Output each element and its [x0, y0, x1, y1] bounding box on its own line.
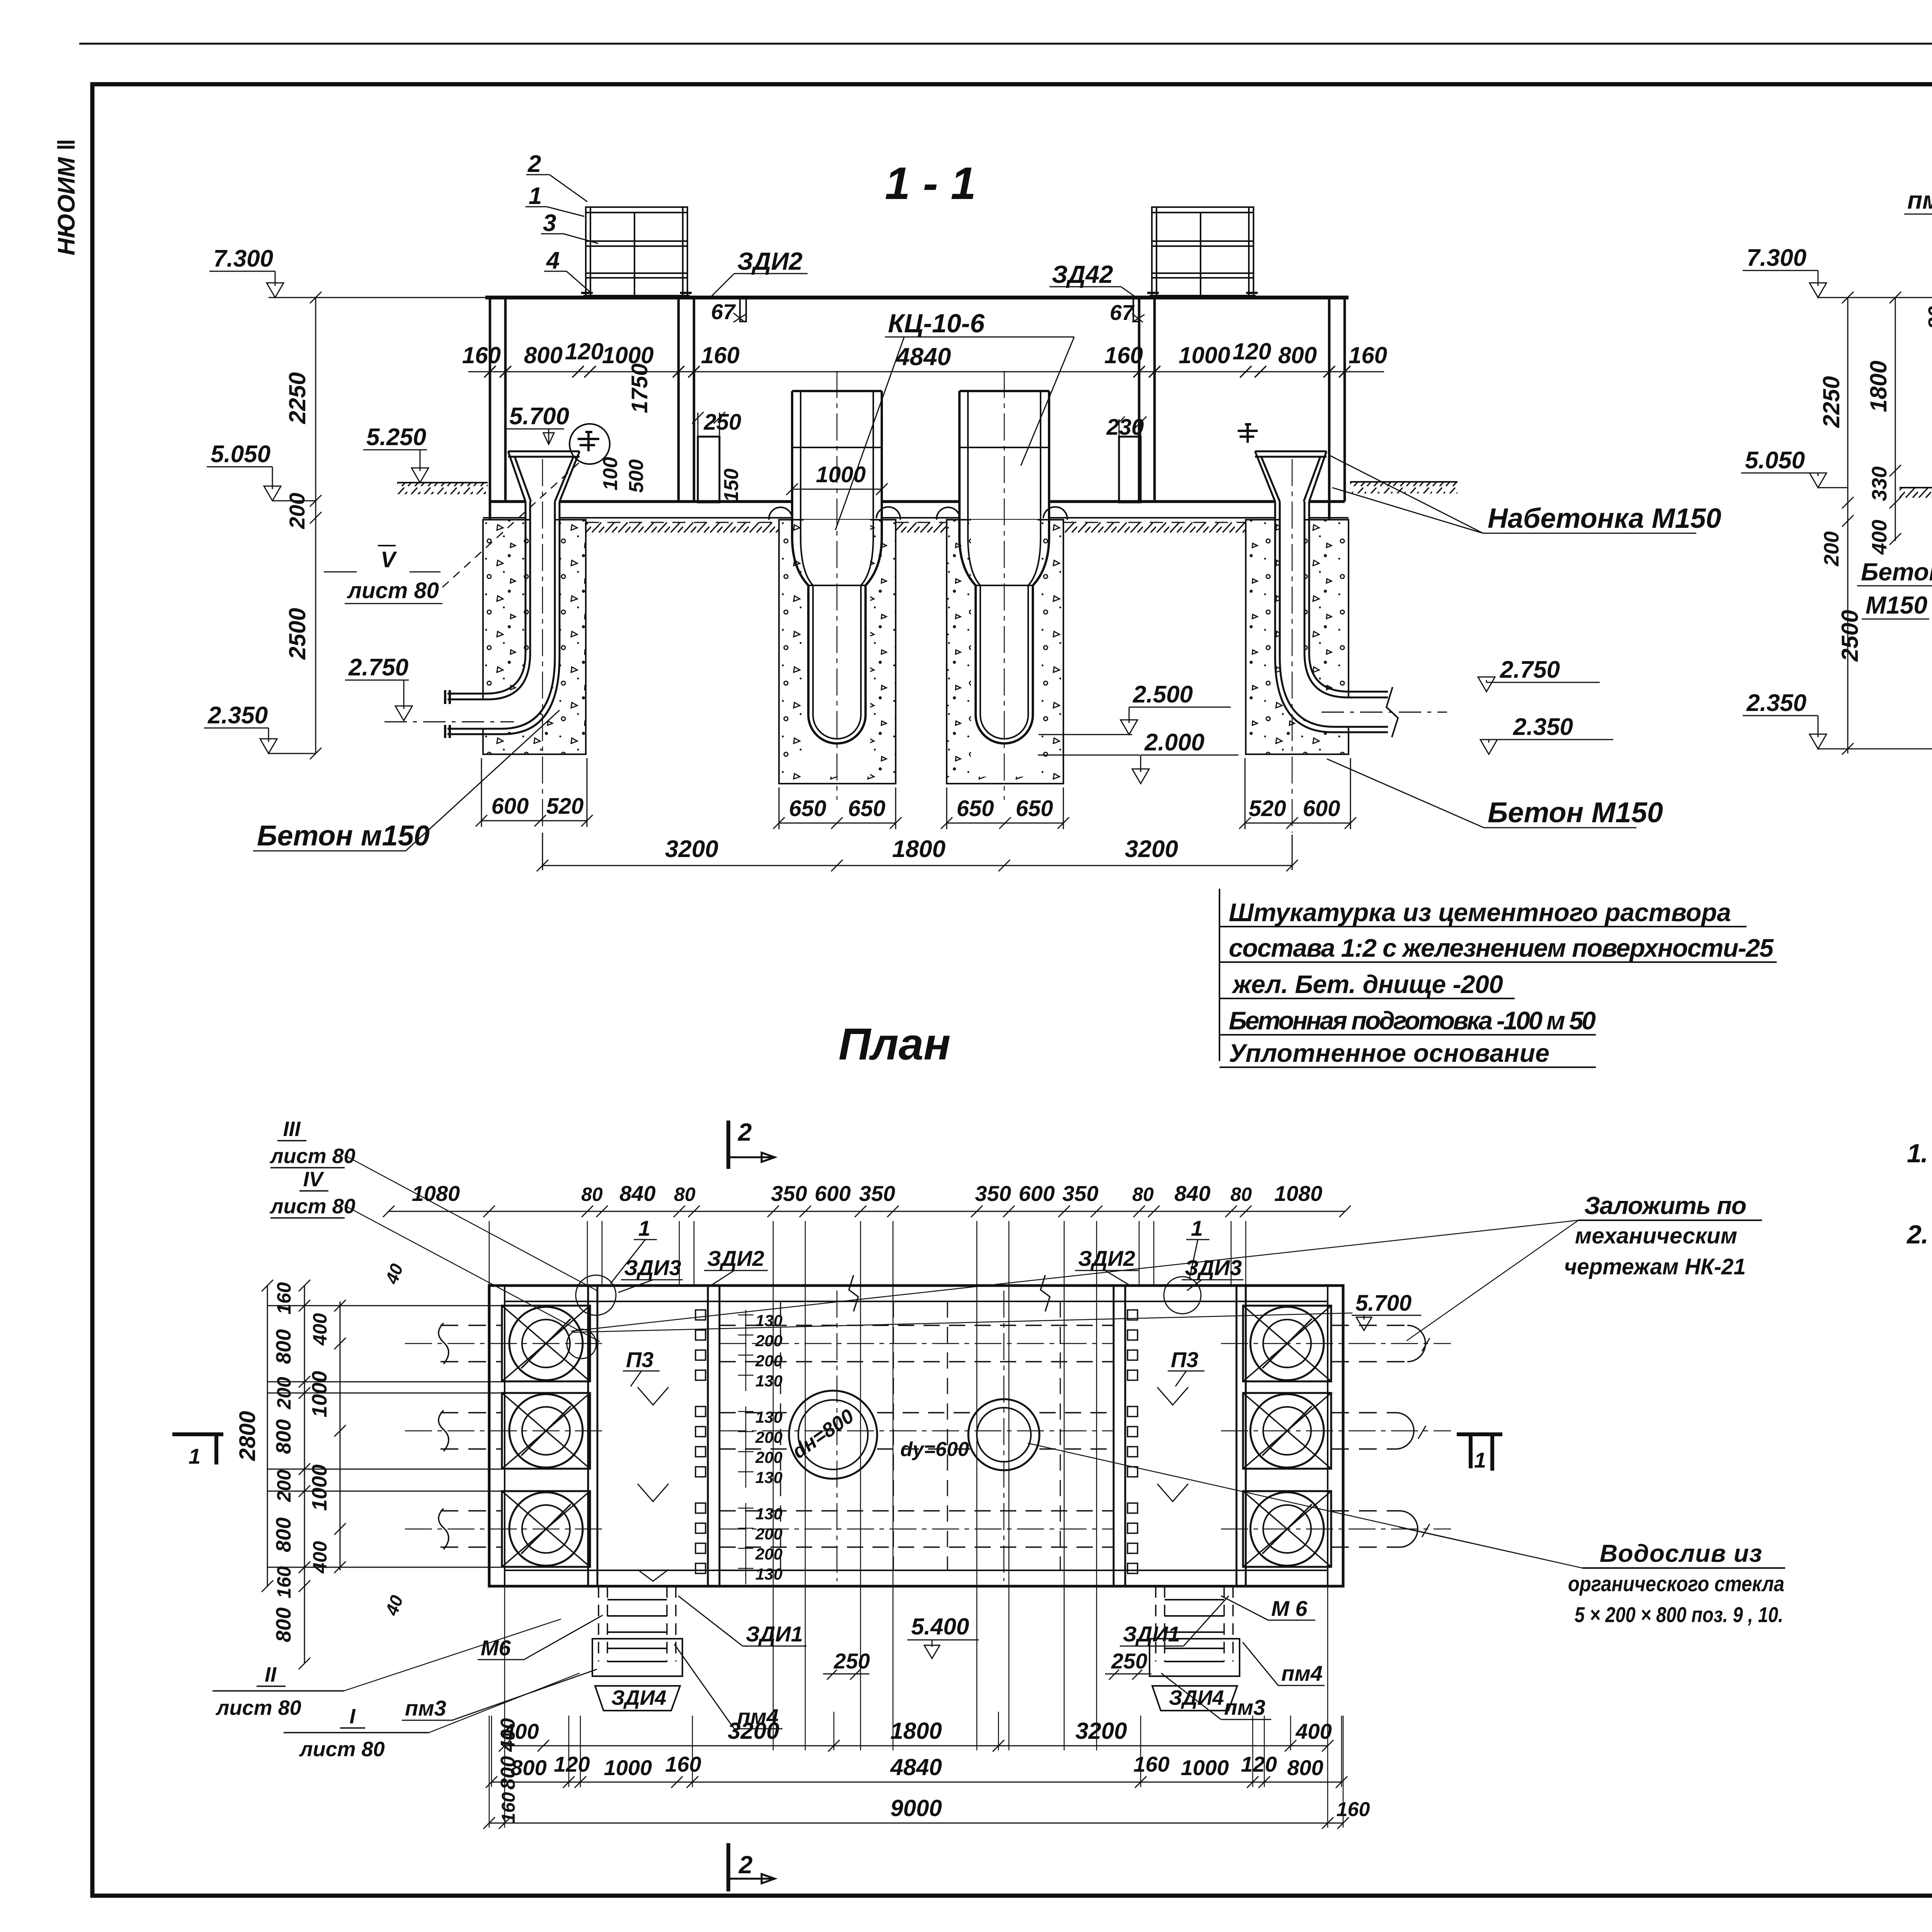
svg-text:160: 160 — [701, 342, 740, 368]
stub wall 67 left — [740, 298, 746, 321]
svg-text:840: 840 — [619, 1181, 655, 1206]
svg-text:650: 650 — [1016, 796, 1053, 821]
vertical dims left of 2-2 — [1818, 292, 1932, 755]
svg-text:800: 800 — [272, 1419, 295, 1454]
pipe2 concrete foundation — [947, 520, 1063, 784]
svg-text:IV: IV — [303, 1168, 324, 1191]
pipe1 KC-10-6 — [792, 391, 882, 743]
central dashed pipe runs — [719, 1325, 1114, 1547]
level mark 2.000 mid — [1038, 729, 1238, 784]
svg-text:5.700: 5.700 — [1355, 1291, 1412, 1316]
right railing — [1147, 206, 1258, 298]
svg-text:Набетонка М150: Набетонка М150 — [1488, 503, 1721, 534]
level mark 7.300 — [209, 245, 284, 298]
svg-text:520: 520 — [1249, 796, 1286, 821]
centerline left funnel pipe — [542, 459, 543, 827]
section marks 2-2 top bottom — [728, 1118, 775, 1891]
svg-text:Бетон М150: Бетон М150 — [1488, 796, 1663, 828]
svg-text:400: 400 — [497, 1718, 519, 1752]
right inner wall — [1139, 298, 1155, 502]
svg-text:ЗДИ4: ЗДИ4 — [1169, 1686, 1224, 1709]
svg-text:2.750: 2.750 — [348, 654, 408, 681]
svg-text:М6: М6 — [481, 1636, 511, 1660]
level mark 2.750 right — [1321, 656, 1600, 712]
svg-text:Штукатурка из цементного рас: Штукатурка из цементного раствора — [1229, 898, 1731, 927]
svg-text:2: 2 — [527, 151, 541, 177]
note zalozhit — [571, 1192, 1762, 1341]
svg-text:120: 120 — [1241, 1752, 1277, 1776]
right inlet block squares with circles — [1243, 1306, 1331, 1567]
label ZD42 right — [1049, 260, 1145, 325]
svg-text:2.000: 2.000 — [1144, 729, 1204, 756]
svg-text:1000: 1000 — [816, 462, 866, 487]
svg-text:лист 80: лист 80 — [269, 1195, 355, 1218]
right funnel water inlet — [1255, 451, 1327, 502]
svg-text:1000: 1000 — [1181, 1755, 1229, 1780]
svg-text:67: 67 — [1110, 300, 1135, 325]
left inlet block squares with circles — [267, 1306, 590, 1567]
svg-text:5.700: 5.700 — [509, 403, 569, 430]
svg-text:130: 130 — [755, 1372, 782, 1390]
svg-text:III: III — [283, 1117, 301, 1141]
svg-text:I: I — [349, 1705, 355, 1728]
svg-text:200: 200 — [755, 1525, 782, 1543]
svg-text:1: 1 — [1474, 1448, 1486, 1472]
concrete collar bumps at floor — [769, 507, 1067, 520]
svg-text:1800: 1800 — [890, 1718, 942, 1744]
pos labels 2 1 3 4 left railing — [526, 151, 598, 293]
svg-text:600: 600 — [815, 1181, 850, 1206]
svg-text:160: 160 — [462, 342, 501, 368]
svg-text:400: 400 — [309, 1313, 331, 1346]
svg-text:II: II — [265, 1663, 277, 1686]
svg-text:лист 80: лист 80 — [299, 1738, 385, 1761]
note vodosliv — [1028, 1443, 1785, 1627]
svg-text:2250: 2250 — [284, 372, 310, 424]
svg-text:200: 200 — [273, 1469, 295, 1502]
svg-text:состава 1:2 с железнением п: состава 1:2 с железнением поверхности-25 — [1229, 934, 1774, 962]
svg-text:3200: 3200 — [665, 836, 718, 862]
svg-text:800: 800 — [1278, 342, 1317, 368]
label ZDI2 left — [711, 247, 808, 324]
level mark 2.500 mid — [1039, 681, 1231, 735]
channel flow chevrons — [638, 1387, 1188, 1581]
left vertical dim line — [284, 292, 321, 759]
bottom dims 520 600 right — [1239, 758, 1356, 829]
svg-text:Бетон м150: Бетон м150 — [257, 820, 430, 852]
ground line right of structure — [1350, 482, 1458, 493]
svg-text:350: 350 — [859, 1181, 895, 1206]
interior clear of pipe2 — [971, 520, 1037, 777]
svg-text:2.350: 2.350 — [1746, 690, 1806, 716]
svg-text:130: 130 — [755, 1565, 782, 1583]
svg-text:350: 350 — [1062, 1181, 1098, 1206]
svg-text:5 × 200 × 800 поз. 9 , 10.: 5 × 200 × 800 поз. 9 , 10. — [1575, 1602, 1783, 1627]
svg-text:пм3: пм3 — [405, 1696, 446, 1720]
section marks 1-1 left right — [172, 1434, 1502, 1472]
label beton m150 left — [253, 710, 560, 852]
svg-text:dу=600: dу=600 — [900, 1438, 969, 1461]
top-left detail circles and labels — [567, 1216, 1243, 1359]
labels around wells — [402, 1596, 1325, 1729]
svg-text:130: 130 — [755, 1408, 782, 1426]
stub wall 67 right — [1133, 298, 1139, 321]
svg-text:200: 200 — [755, 1332, 782, 1350]
dim 230 right pier — [1106, 415, 1146, 440]
svg-text:Бетонная подготовка -100 м 50: Бетонная подготовка -100 м 50 — [1229, 1006, 1596, 1035]
svg-text:200: 200 — [273, 1377, 295, 1410]
pier 250 left — [698, 437, 719, 502]
svg-text:9000: 9000 — [890, 1795, 942, 1821]
inlet pipe stubs left dashed — [405, 1323, 603, 1549]
svg-text:80: 80 — [674, 1184, 696, 1205]
svg-text:80: 80 — [1132, 1184, 1154, 1205]
level mark 5.250 — [363, 424, 429, 483]
svg-text:НЮОИМ ǁ: НЮОИМ ǁ — [53, 139, 80, 255]
svg-text:1: 1 — [638, 1216, 650, 1240]
svg-text:160: 160 — [1133, 1752, 1169, 1776]
floor slab lines — [483, 502, 1349, 522]
centerline pipe1 — [837, 371, 838, 800]
pipe2 KC-10-6 — [959, 391, 1049, 743]
reference III list 80 — [269, 1117, 597, 1291]
label Beton M150 — [1857, 503, 1932, 619]
left outer wall — [490, 298, 505, 520]
svg-text:ЗДИ1: ЗДИ1 — [746, 1622, 803, 1646]
svg-text:Заложить по: Заложить по — [1584, 1192, 1747, 1219]
right gate fitting — [1238, 424, 1258, 443]
dim 250 left pier — [599, 410, 743, 502]
svg-text:2.750: 2.750 — [1500, 656, 1560, 683]
level 7.300 — [1743, 245, 1932, 298]
svg-text:2.350: 2.350 — [1513, 714, 1573, 740]
left concrete foundation block — [483, 520, 586, 754]
svg-text:600: 600 — [1303, 796, 1340, 821]
left dim columns of plan — [235, 1261, 407, 1669]
svg-text:М150: М150 — [1866, 591, 1927, 619]
svg-text:400: 400 — [1295, 1719, 1332, 1743]
level mark 2.350 left — [204, 702, 316, 753]
left channel walls — [588, 1286, 719, 1586]
svg-text:1: 1 — [529, 183, 542, 209]
svg-text:200: 200 — [285, 493, 309, 529]
svg-text:пм3: пм3 — [1224, 1695, 1265, 1719]
svg-text:1800: 1800 — [1866, 361, 1891, 412]
svg-text:1800: 1800 — [892, 836, 946, 862]
bottom dims 3200 1800 3200 — [537, 833, 1298, 871]
svg-text:350: 350 — [975, 1181, 1011, 1206]
level mark 2.350 right — [1480, 714, 1613, 754]
svg-text:800: 800 — [1287, 1755, 1323, 1780]
reference IV list 80 — [269, 1168, 600, 1342]
tab spacing dims — [738, 1310, 782, 1584]
svg-text:1000: 1000 — [308, 1464, 331, 1511]
svg-text:ЗДИ4: ЗДИ4 — [611, 1686, 667, 1709]
svg-text:КЦ-10-6: КЦ-10-6 — [888, 309, 985, 338]
svg-text:120: 120 — [1233, 338, 1271, 364]
svg-text:V: V — [381, 547, 397, 572]
plan outer walls — [489, 1286, 1343, 1586]
svg-text:1000: 1000 — [1179, 342, 1230, 368]
svg-text:120: 120 — [565, 338, 604, 364]
svg-text:80: 80 — [1230, 1184, 1252, 1205]
svg-text:3200: 3200 — [1075, 1718, 1127, 1744]
svg-text:1 - 1: 1 - 1 — [885, 158, 976, 209]
svg-text:2. Совместно с данным см. л: 2. Совместно с данным см. л. КЖ-80,93,94… — [1906, 1220, 1932, 1249]
svg-text:3: 3 — [543, 210, 556, 236]
opening d600 — [900, 1399, 1039, 1470]
level 5.050 — [1741, 447, 1848, 488]
svg-text:200: 200 — [755, 1545, 782, 1563]
svg-text:лист 80: лист 80 — [215, 1696, 301, 1719]
svg-text:250: 250 — [833, 1649, 870, 1673]
detail circle and gate fitting 5.700 — [506, 403, 610, 464]
left railing — [581, 206, 692, 298]
svg-text:1000: 1000 — [308, 1371, 331, 1417]
svg-text:100: 100 — [599, 457, 622, 491]
svg-text:2.500: 2.500 — [1133, 681, 1193, 708]
svg-text:5.050: 5.050 — [211, 441, 270, 468]
bottom dims 650 650 pipe2 — [941, 787, 1069, 829]
label KC-10-6 — [835, 309, 1074, 530]
svg-text:160: 160 — [665, 1752, 701, 1776]
svg-text:130: 130 — [755, 1505, 782, 1523]
break marks on top edge — [849, 1275, 1050, 1311]
svg-text:150: 150 — [720, 469, 743, 502]
plan level 5.700 — [572, 1291, 1421, 1332]
svg-text:840: 840 — [1174, 1181, 1210, 1206]
top slab — [485, 296, 1349, 299]
svg-text:М 6: М 6 — [1271, 1596, 1308, 1621]
svg-text:лист 80: лист 80 — [269, 1145, 355, 1168]
svg-text:чертежам НК-21: чертежам НК-21 — [1564, 1254, 1746, 1279]
pipe1 dim 1000 — [786, 462, 888, 495]
right outer wall — [1329, 298, 1345, 520]
svg-text:2: 2 — [738, 1118, 752, 1146]
svg-text:160: 160 — [1349, 342, 1387, 368]
svg-text:1: 1 — [189, 1444, 201, 1468]
svg-text:7.300: 7.300 — [1747, 245, 1806, 271]
svg-text:330: 330 — [1868, 466, 1891, 501]
top dim chain of plan — [383, 1181, 1351, 1750]
svg-text:520: 520 — [546, 794, 584, 819]
svg-text:4840: 4840 — [890, 1754, 942, 1780]
svg-text:ЗДИ2: ЗДИ2 — [737, 247, 803, 275]
svg-text:Водослив из: Водослив из — [1600, 1539, 1762, 1567]
P3 labels — [623, 1347, 1204, 1386]
svg-text:Уплотненное основание: Уплотненное основание — [1229, 1039, 1549, 1067]
svg-text:ЗД42: ЗД42 — [1052, 260, 1113, 288]
svg-text:5.250: 5.250 — [366, 424, 426, 451]
reference II list 80 — [213, 1619, 561, 1719]
svg-text:2500: 2500 — [1837, 610, 1863, 662]
ground hatch mid right segment — [1063, 521, 1246, 534]
ground left of 2-2 — [1900, 488, 1932, 498]
svg-text:пм4: пм4 — [1281, 1661, 1323, 1685]
svg-text:120: 120 — [554, 1752, 590, 1776]
svg-text:1080: 1080 — [1274, 1181, 1323, 1206]
svg-text:1750: 1750 — [627, 363, 652, 413]
bottom dims 650 650 pipe1 — [773, 787, 901, 829]
svg-text:200: 200 — [755, 1428, 782, 1446]
ref V list 80 — [324, 463, 579, 604]
svg-text:800: 800 — [272, 1329, 295, 1364]
left bottom wing dims — [497, 1718, 519, 1823]
right down pipe with elbow — [1275, 502, 1398, 737]
svg-text:1: 1 — [1191, 1216, 1203, 1240]
label beton m150 right — [1327, 759, 1663, 828]
svg-text:ЗДИ2: ЗДИ2 — [707, 1246, 764, 1270]
svg-text:4840: 4840 — [895, 343, 951, 371]
svg-text:П3: П3 — [1171, 1347, 1198, 1372]
centerline pipe2 — [1004, 371, 1005, 800]
level mark 2.750 left — [345, 654, 514, 722]
svg-text:2500: 2500 — [284, 608, 310, 660]
interior clear of pipe1 — [804, 520, 870, 777]
anchor tabs left wall — [696, 1310, 706, 1573]
svg-text:250: 250 — [704, 410, 742, 435]
svg-text:400: 400 — [309, 1541, 331, 1574]
svg-text:200: 200 — [1820, 531, 1843, 566]
outlet pipe stubs right dashed — [1221, 1325, 1451, 1547]
reference I list 80 — [284, 1673, 580, 1761]
svg-text:600: 600 — [492, 794, 529, 819]
svg-text:650: 650 — [848, 796, 886, 821]
svg-text:5.050: 5.050 — [1745, 447, 1805, 474]
svg-text:7.300: 7.300 — [213, 245, 273, 272]
centerline right funnel pipe — [1292, 459, 1293, 833]
svg-text:80: 80 — [1924, 306, 1932, 329]
ground hatch between pipe foundations — [896, 521, 947, 534]
svg-text:130: 130 — [755, 1468, 782, 1486]
left down pipe with elbow — [445, 502, 560, 738]
svg-text:1000: 1000 — [604, 1755, 652, 1780]
svg-text:механическим: механическим — [1575, 1223, 1737, 1248]
svg-text:1. Камера N11 для аэротенка: 1. Камера N11 для аэротенка производител… — [1907, 1139, 1932, 1168]
svg-text:160: 160 — [1104, 342, 1143, 368]
anchor tabs right wall — [1128, 1310, 1138, 1573]
svg-text:П3: П3 — [626, 1347, 653, 1372]
label pm3,4 — [1904, 186, 1932, 271]
sheet trim line top — [79, 43, 1932, 45]
svg-text:160: 160 — [1337, 1798, 1370, 1821]
svg-text:67: 67 — [711, 299, 736, 324]
svg-text:800: 800 — [524, 342, 563, 368]
svg-text:350: 350 — [771, 1181, 807, 1206]
ground hatch mid left segment — [586, 521, 779, 534]
svg-text:650: 650 — [957, 796, 994, 821]
svg-text:800: 800 — [272, 1607, 295, 1642]
svg-text:2: 2 — [738, 1851, 753, 1879]
top dimension chain — [462, 338, 1387, 413]
svg-text:600: 600 — [1019, 1181, 1054, 1206]
svg-text:План: План — [838, 1019, 951, 1069]
svg-text:650: 650 — [789, 796, 827, 821]
svg-text:500: 500 — [625, 459, 648, 493]
right channel walls — [1114, 1286, 1246, 1586]
pipe1 concrete foundation — [779, 520, 896, 784]
svg-text:пм 3,4: пм 3,4 — [1907, 186, 1932, 214]
level mark 5.050 — [207, 441, 316, 501]
svg-text:лист 80: лист 80 — [347, 578, 439, 603]
right concrete foundation block — [1246, 520, 1349, 754]
ladder well right — [1150, 1586, 1240, 1711]
svg-text:ЗДИ3: ЗДИ3 — [624, 1255, 681, 1280]
svg-text:органического стекла: органического стекла — [1568, 1571, 1784, 1596]
svg-text:200: 200 — [755, 1448, 782, 1466]
svg-text:3200: 3200 — [728, 1718, 779, 1744]
svg-text:ЗДИ1: ЗДИ1 — [1123, 1622, 1180, 1646]
svg-text:2800: 2800 — [235, 1411, 260, 1461]
big opening d800 — [788, 1391, 877, 1479]
svg-text:ЗДИ3: ЗДИ3 — [1185, 1255, 1242, 1280]
label nabetonka m150 — [1329, 455, 1721, 534]
svg-text:3200: 3200 — [1125, 836, 1178, 862]
svg-text:400: 400 — [1868, 520, 1891, 555]
svg-text:1080: 1080 — [412, 1181, 460, 1206]
svg-text:80: 80 — [581, 1184, 603, 1205]
hidden foundation edges dashed vertical — [781, 1291, 1060, 1581]
svg-text:160: 160 — [273, 1282, 295, 1315]
svg-text:2250: 2250 — [1818, 376, 1844, 428]
svg-text:ЗДИ2: ЗДИ2 — [1078, 1246, 1135, 1270]
ladder well left — [592, 1586, 682, 1711]
bottom dims 600 520 left — [476, 758, 593, 827]
level line 7.300 extension — [269, 297, 485, 298]
svg-text:4: 4 — [546, 247, 560, 274]
svg-text:230: 230 — [1106, 415, 1144, 440]
svg-text:160: 160 — [273, 1566, 295, 1599]
interior clear of right down pipe — [1280, 502, 1388, 727]
svg-text:5.400: 5.400 — [911, 1614, 969, 1639]
finish notes block — [1219, 889, 1777, 1067]
ground line left of structure — [397, 483, 488, 494]
interior clear of left down pipe — [450, 502, 555, 729]
svg-text:800: 800 — [272, 1517, 295, 1552]
svg-text:Бетон: Бетон — [1861, 558, 1932, 586]
left inner wall — [679, 298, 694, 502]
numbered notes — [1906, 1139, 1932, 1249]
svg-text:800: 800 — [497, 1756, 519, 1790]
svg-text:200: 200 — [755, 1352, 782, 1370]
level 2.350 — [1743, 690, 1932, 749]
svg-text:160: 160 — [498, 1792, 519, 1823]
svg-text:2.350: 2.350 — [207, 702, 268, 729]
left funnel water inlet — [508, 451, 580, 502]
bottom dim chains of plan — [483, 1586, 1370, 1829]
pier 250 right — [1119, 437, 1141, 502]
svg-text:жел. Бет. днище -200: жел. Бет. днище -200 — [1231, 970, 1503, 998]
